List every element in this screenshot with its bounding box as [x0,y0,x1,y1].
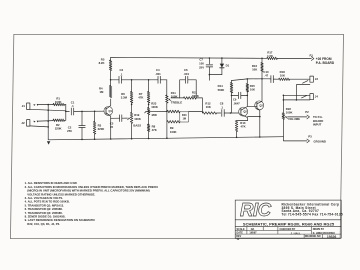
junction [261,58,263,60]
resistor R6 3.3M [130,92,133,104]
wire B+ bus [232,79,270,81]
wire treble bottom [166,103,168,111]
capacitor C7 100 25V [208,58,210,64]
junction [110,138,112,140]
wire J2 sleeve [30,126,48,127]
svg-text:100K: 100K [170,130,177,134]
svg-text:R20: R20 [182,114,187,117]
wire bus to C10 [270,78,271,80]
wire R18 to J3 [290,78,310,80]
svg-text:.47: .47 [264,73,268,77]
svg-text:25V: 25V [199,65,204,69]
wire C4 to treble pot [160,79,166,81]
svg-text:8.2K: 8.2K [99,61,105,65]
junction [230,112,232,114]
wire mid wiper to R20 [149,110,167,112]
zener diode D1 [221,57,223,59]
svg-text:J. HALL: J. HALL [291,231,302,235]
wire treble wiper [171,97,180,99]
junction [47,120,49,122]
svg-text:SCHEMATIC, PREAMP RG30L RG60 A: SCHEMATIC, PREAMP RG30L RG60 AND RG25 [243,221,335,226]
resistor R20 1M [167,110,180,113]
wire R1/R2 join [65,105,67,121]
wire C3 to C4 [121,79,158,81]
junction [65,111,67,113]
junction [259,116,261,118]
wire filter stub [208,75,210,81]
wire R14 to base node [231,93,233,113]
svg-text:10K: 10K [206,105,211,109]
wire Q2 emitter to R13 [237,120,248,122]
resistor R4 1M [109,86,112,98]
potentiometer R22 100K VOLUME [282,113,285,120]
junction [166,137,168,139]
wire C1 to Q1 base [74,110,104,112]
svg-text:P3: P3 [308,134,312,138]
junction [283,95,285,97]
transistor Q1 [104,107,113,116]
resistor R3 220K [93,122,96,135]
svg-text:TREBLE: TREBLE [171,101,182,105]
wire J4 to volume pot [282,95,284,113]
junction [261,78,263,80]
svg-text:.001: .001 [155,72,161,76]
potentiometer R11 100K TREBLE [166,80,168,95]
resistor R13 47K [235,121,238,132]
wire R16 top to rail [261,58,263,62]
svg-text:DRWN BY: DRWN BY [313,228,325,231]
svg-text:Tel 714-545-5574 Fax 714-754-: Tel 714-545-5574 Fax 714-754-0135 [282,213,343,217]
junction [47,109,49,111]
svg-text:R22, C10, Q3, D1, J4, P3.: R22, C10, Q3, D1, J4, P3. [27,222,60,226]
wire J2 tip [39,120,53,123]
wire C6 right leg [188,80,196,98]
wire Q2 emitter to Q3 collector [248,116,260,118]
wire volume to ground [282,119,284,136]
wire rail right of R17 [277,57,311,59]
capacitor C10 .47 [270,76,272,83]
svg-text:100K: 100K [134,117,141,121]
svg-text:100K: 100K [151,105,158,109]
wire R8 to ground [148,132,150,139]
svg-text:.001: .001 [184,72,190,76]
svg-text:10K: 10K [252,68,257,72]
junction [131,79,133,81]
junction [283,99,285,101]
junction [81,111,83,113]
svg-text:1.5K: 1.5K [267,54,273,58]
wire MID pot bottom [148,115,150,124]
svg-text:22: 22 [110,125,114,129]
junction [236,137,238,139]
capacitor C9 .0047 [237,92,239,98]
wire Q3 collector to ground [259,117,261,137]
wire treble column to ground [166,112,168,122]
svg-text:P1: P1 [309,54,313,58]
resistor R2 220K [53,119,65,122]
potentiometer R23 100K MID [147,108,150,115]
svg-text:47K: 47K [138,96,143,100]
wire R4 to node [110,80,112,86]
connector P3 [283,137,307,141]
wire node A to C3 [111,79,119,81]
resistor R17 1.5K [267,57,278,60]
wire C9 left [232,94,239,96]
wire volume wiper to P2 [288,116,307,118]
wire J1 tip [39,104,53,106]
wire R12 to C8 [217,112,221,114]
svg-text:RIC: RIC [240,199,272,220]
junction [259,136,261,138]
junction [148,111,150,113]
junction [131,138,133,140]
junction [296,99,298,101]
wire R16 bottom [261,72,263,79]
resistor R16 10K [261,63,263,72]
wire Q1 emitter to C5 [111,117,120,119]
wire R7 bottom [148,103,150,108]
resistor R15 10K [246,84,249,93]
wire ground bus [47,105,49,140]
wire to node B [196,98,202,113]
junction [148,79,150,81]
svg-text:CHECKED BY: CHECKED BY [280,228,296,231]
wire R21 left [180,97,184,99]
svg-text:1M: 1M [100,90,105,94]
svg-text:47K: 47K [152,128,157,132]
junction [247,95,249,97]
svg-text:J4: J4 [315,95,319,99]
svg-text:VOLUME: VOLUME [288,117,300,121]
transistor Q2 [239,107,248,116]
junction node A [110,79,112,81]
border frame [10,34,343,238]
svg-text:J2: J2 [21,121,25,125]
svg-text:DATE: DATE [237,232,244,235]
svg-text:.0047: .0047 [233,101,240,105]
potentiometer R19 100K BASS [130,112,133,123]
capacitor C2 250 [79,125,85,127]
junction [148,138,150,140]
wire to C1 [66,110,70,112]
resistor R9 100K [167,121,180,124]
jack J1 [27,103,30,110]
wire C2 top [81,111,83,125]
junction [47,104,49,106]
svg-text:BASS: BASS [133,124,141,128]
wire R19 to ground [131,123,133,138]
resistor R18 10K [279,78,290,81]
capacitor C8 .1 [221,110,223,117]
wire ground rail [49,137,284,140]
svg-text:C9: C9 [233,98,237,102]
wire R14 top [231,81,233,83]
svg-text:600K: 600K [192,94,199,98]
junction [148,104,150,106]
jack J4 [310,94,314,100]
svg-text:D1: D1 [226,64,230,68]
svg-text:P2: P2 [305,110,309,114]
resistor R7 47K [147,92,150,104]
capacitor C5 22 [119,115,121,122]
svg-text:250: 250 [67,129,72,133]
jack J2 [27,120,30,127]
wire R15 to Q3 base node [246,92,248,106]
junction [131,104,133,106]
wire C6 left leg [180,80,186,98]
svg-text:220K: 220K [55,127,62,131]
wire J4 tip [283,94,310,96]
svg-text:19326: 19326 [327,235,337,239]
resistor R14 560K [230,83,233,94]
resistor R21 600K [184,97,197,100]
wire D1 to C7 [209,74,222,76]
wire J1 sleeve [30,109,66,111]
svg-text:J3: J3 [315,77,319,81]
wire J4 shunt [283,99,310,101]
svg-text:MID: MID [152,113,157,117]
svg-text:GROUND: GROUND [314,139,326,143]
svg-text:10K: 10K [250,87,255,91]
svg-text:47K: 47K [241,124,246,128]
resistor R8 47K [147,124,150,132]
wire R13 to ground [236,132,238,138]
wire R6 top [131,80,133,92]
svg-text:100K: 100K [55,100,62,104]
wire R3 to ground [94,134,96,139]
wire +V rail [111,57,267,60]
svg-text:INPUT: INPUT [313,123,322,127]
junction [209,74,211,76]
svg-text:SCALE: SCALE [237,228,246,231]
wire C9 right to R15 column [241,94,248,96]
wire J3 shunt [296,85,310,100]
svg-text:NA: NA [251,228,255,231]
junction [47,126,49,128]
svg-text:DRAWING NO: DRAWING NO [305,235,321,238]
svg-text:220K: 220K [98,127,105,131]
wire C2 to ground [81,128,83,140]
wire C10 to R18 [273,78,278,80]
svg-text:P.A. BOARD: P.A. BOARD [316,61,335,65]
wire R5 top to rail [110,58,112,61]
svg-text:1M: 1M [182,118,185,121]
wire R15 top [246,79,248,84]
svg-text:100K: 100K [286,110,293,114]
wire R7 top [148,80,150,92]
wire Q2 base node to Q3 [247,105,257,107]
junction [94,111,96,113]
title block [235,200,341,238]
wire R6 bottom [131,103,133,112]
wire R3 top [94,111,96,121]
svg-text:560K: 560K [218,88,225,92]
junction [247,78,249,80]
jack J3 [310,76,314,82]
svg-text:Q1: Q1 [109,109,113,113]
wire C8 to Q2 base [224,112,239,114]
svg-text:3.3M: 3.3M [121,96,128,100]
svg-text:J1: J1 [22,104,26,108]
resistor R12 10K [202,112,216,114]
ground symbol [47,141,50,144]
wire R20 box to node B [189,111,203,113]
svg-text:1/8/97: 1/8/97 [249,231,257,235]
transistor Q3 [255,101,264,110]
wire Q1 emitter to ground [110,118,112,139]
junction [81,139,83,141]
junction [166,111,168,113]
svg-text:C3: C3 [120,68,124,72]
svg-text:10K: 10K [280,74,285,78]
resistor R5 8.2K [109,60,112,71]
junction [209,57,211,59]
junction [94,138,96,140]
wire C5 to bass wiper [122,117,128,119]
svg-text:Q3: Q3 [259,103,263,107]
junction [231,95,233,97]
svg-text:Q2: Q2 [243,110,247,114]
wire R5 bottom [110,71,112,80]
